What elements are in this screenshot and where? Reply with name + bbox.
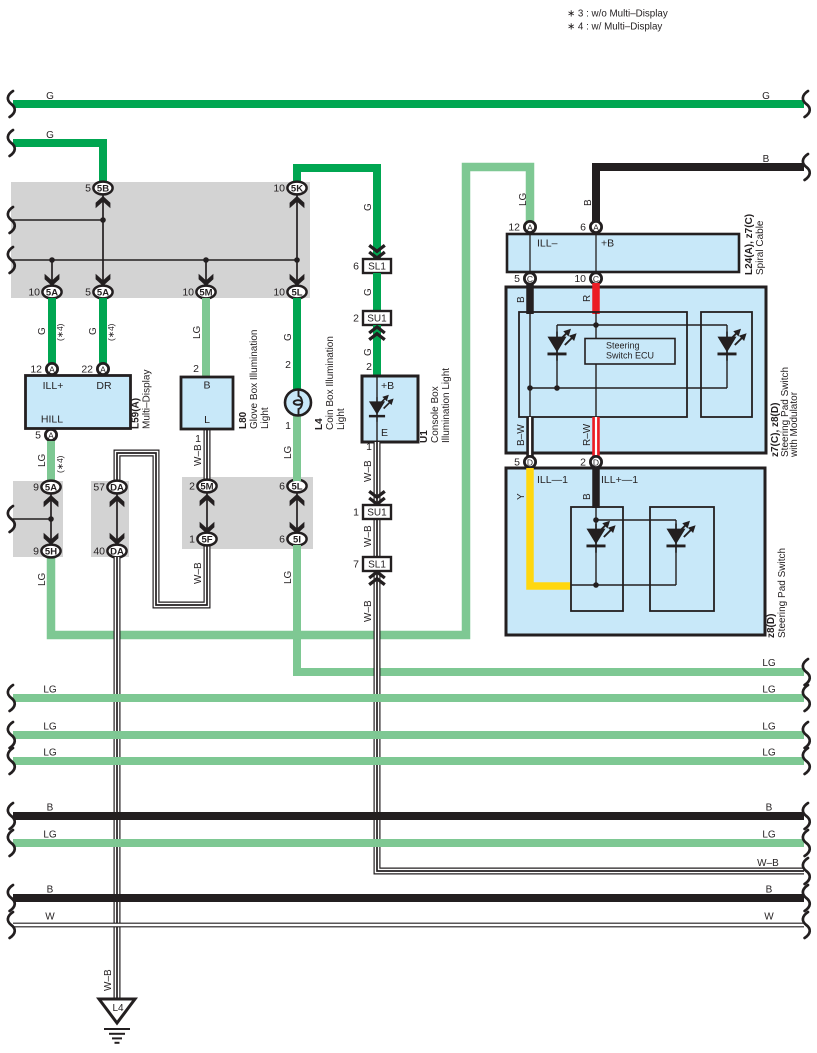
svg-text:C: C: [527, 274, 533, 284]
node dot at 5A/5H tap: [48, 516, 54, 522]
svg-text:L4: L4: [112, 1003, 124, 1014]
svg-text:1: 1: [353, 507, 359, 519]
wire G bus top: [13, 100, 804, 108]
wire LG bus 2: [13, 694, 804, 702]
glove box illumination light L80 box: [181, 377, 233, 429]
svg-text:40: 40: [93, 546, 105, 558]
wire internal spiral cable left: [529, 234, 531, 272]
wire G SL1 to SU1: [373, 273, 381, 311]
LED2 of z7: [717, 329, 746, 361]
svg-text:ILL–: ILL–: [537, 238, 558, 250]
svg-text:LG: LG: [518, 192, 529, 206]
wire thin line2 in J/B: [13, 259, 297, 261]
svg-text:1: 1: [195, 433, 201, 445]
wire W-B DA40 to ground: [114, 557, 121, 998]
svg-text:Steering Pad Switch: Steering Pad Switch: [777, 548, 788, 638]
wire internal B thin: [529, 313, 531, 417]
svg-text:G: G: [762, 91, 770, 102]
svg-text:LG: LG: [283, 445, 294, 459]
junction block shading around 5M/5F/5L/5I: [182, 477, 313, 549]
svg-text:Console Box: Console Box: [430, 386, 441, 443]
svg-text:G: G: [88, 327, 99, 335]
svg-text:5: 5: [85, 287, 91, 299]
svg-text:A: A: [100, 364, 106, 374]
svg-text:B: B: [763, 154, 770, 165]
wire G 5L to coin box light: [293, 298, 301, 392]
svg-text:A: A: [527, 222, 533, 232]
wire break right G bus: [803, 91, 810, 117]
svg-text:Multi–Display: Multi–Display: [142, 370, 153, 429]
wire break line1: [8, 207, 15, 233]
junction block shading J/B 1: [11, 182, 310, 298]
svg-text:2: 2: [193, 363, 199, 375]
svg-text:LG: LG: [762, 830, 776, 841]
junction SU1 pin1: [353, 505, 391, 519]
svg-text:2: 2: [580, 457, 586, 469]
svg-text:R–W: R–W: [582, 423, 593, 446]
svg-text:W–B: W–B: [363, 525, 374, 547]
svg-text:W: W: [764, 912, 774, 923]
svg-text:7: 7: [353, 559, 359, 571]
svg-text:HILL: HILL: [41, 414, 63, 426]
svg-text:L24(A), z7(C): L24(A), z7(C): [744, 214, 755, 275]
wire bottom rail z8: [571, 584, 676, 586]
svg-text:SU1: SU1: [367, 314, 387, 325]
arrow into lower 5A: [96, 274, 111, 286]
svg-text:1: 1: [285, 420, 291, 432]
svg-text:10: 10: [273, 287, 285, 299]
wire LG 5I to LG bus: [297, 545, 804, 672]
svg-text:L4: L4: [314, 418, 325, 430]
steering switch ECU box: [585, 339, 675, 365]
LED3 vertical: [675, 520, 677, 585]
svg-text:C: C: [593, 274, 599, 284]
wire DA to DA vertical: [116, 493, 118, 546]
svg-text:SL1: SL1: [368, 560, 386, 571]
svg-text:E: E: [381, 427, 388, 439]
svg-text:12: 12: [508, 222, 520, 234]
svg-text:LG: LG: [192, 325, 203, 339]
connector 5I pin6: [279, 533, 306, 546]
svg-text:SU1: SU1: [367, 508, 387, 519]
svg-text:LG: LG: [762, 722, 776, 733]
steering pad switch z8(D) box: [506, 468, 765, 635]
connector DA pin57: [93, 481, 126, 494]
svg-text:2: 2: [189, 481, 195, 493]
wire break left G2: [8, 130, 15, 156]
svg-text:5A: 5A: [45, 482, 57, 493]
LED2 vertical: [726, 325, 728, 388]
connector 5L pin6: [279, 480, 306, 493]
svg-text:5F: 5F: [201, 534, 212, 545]
inner switch box z8 left: [571, 507, 623, 611]
pin 5 D between z7 and z8: [514, 456, 535, 468]
svg-text:W–B: W–B: [103, 969, 114, 991]
wire LG coin box to 5L: [293, 413, 301, 481]
node dot R top rail: [593, 322, 599, 328]
svg-text:10: 10: [273, 183, 285, 195]
connector 5H pin9: [33, 545, 60, 558]
svg-text:A: A: [593, 222, 599, 232]
svg-text:W–B: W–B: [193, 444, 204, 466]
node dot B bottom rail: [527, 385, 533, 391]
svg-text:B: B: [47, 803, 54, 814]
svg-text:R: R: [582, 295, 593, 302]
svg-text:SL1: SL1: [368, 262, 386, 273]
wire W-B 5F loop to DA57: [117, 453, 207, 605]
wire internal spiral cable right: [595, 234, 597, 272]
svg-text:B: B: [766, 885, 773, 896]
svg-text:B: B: [582, 493, 593, 500]
svg-text:6: 6: [279, 481, 285, 493]
svg-text:G: G: [46, 130, 54, 141]
svg-text:5M: 5M: [200, 481, 213, 492]
svg-text:5I: 5I: [293, 534, 301, 545]
node dot z8 bottom: [593, 582, 599, 588]
svg-text:LG: LG: [43, 685, 57, 696]
svg-text:LG: LG: [43, 722, 57, 733]
wire break tap: [8, 506, 15, 532]
svg-text:ILL+—1: ILL+—1: [601, 474, 638, 486]
coin box illumination light L4 bulb: [285, 390, 311, 416]
LED of U1: [369, 395, 394, 422]
wire break right LG bus1: [803, 659, 810, 685]
junction SL1 pin7: [353, 557, 391, 571]
svg-text:U1: U1: [419, 430, 430, 443]
svg-text:2: 2: [366, 361, 372, 373]
svg-text:LG: LG: [762, 658, 776, 669]
connector 5L pin10: [273, 286, 306, 299]
svg-text:Spiral Cable: Spiral Cable: [755, 220, 766, 275]
svg-text:5M: 5M: [199, 287, 212, 298]
svg-text:+B: +B: [381, 380, 394, 392]
wire LG bus 5: [13, 839, 804, 847]
node dot line2 x206: [203, 257, 209, 263]
arrow into 5K: [290, 196, 305, 208]
arrow into 5F: [200, 522, 215, 534]
wire 5M to 5F vertical: [206, 492, 208, 534]
wire bottom rail z7: [530, 387, 727, 389]
svg-text:10: 10: [182, 287, 194, 299]
svg-text:22: 22: [81, 364, 93, 376]
svg-text:5L: 5L: [291, 481, 302, 492]
svg-text:9: 9: [33, 546, 39, 558]
svg-text:B: B: [766, 803, 773, 814]
svg-text:DA: DA: [110, 546, 124, 557]
svg-text:A: A: [49, 364, 55, 374]
svg-text:L59(A): L59(A): [131, 398, 142, 429]
svg-text:9: 9: [33, 482, 39, 494]
svg-text:5A: 5A: [46, 287, 58, 298]
wire W-B L80 to 5M: [204, 429, 211, 481]
node dot LED1 bottom rail: [554, 385, 560, 391]
svg-text:57: 57: [93, 482, 105, 494]
svg-text:B: B: [516, 296, 527, 303]
svg-text:5B: 5B: [97, 183, 109, 194]
junction block shading around DA/DA: [91, 481, 129, 557]
wire B bus 2: [13, 894, 804, 902]
pin 5 C of spiral cable: [514, 273, 535, 285]
pin 2 D between z7 and z8: [580, 456, 601, 468]
svg-text:G: G: [37, 327, 48, 335]
arrow into 5M: [200, 494, 215, 506]
wire break right W-B bus: [803, 858, 810, 884]
wire top rail z8: [596, 519, 676, 521]
svg-text:B–W: B–W: [516, 424, 527, 446]
svg-text:G: G: [363, 348, 374, 356]
svg-text:D: D: [593, 457, 599, 467]
connector 5B: [85, 182, 112, 195]
svg-text:LG: LG: [762, 748, 776, 759]
svg-text:(∗4): (∗4): [55, 323, 65, 341]
svg-text:Switch ECU: Switch ECU: [606, 351, 654, 361]
pin 5 A of L59: [35, 429, 56, 441]
wire internal U1: [376, 376, 378, 442]
svg-text:5: 5: [85, 183, 91, 195]
svg-text:1: 1: [366, 441, 372, 453]
svg-text:D: D: [527, 457, 533, 467]
svg-text:DA: DA: [110, 482, 124, 493]
wire B from right to spiral cable 6A: [596, 167, 804, 224]
wire B bus 1: [13, 812, 804, 820]
svg-text:LG: LG: [43, 748, 57, 759]
wire W-B U1 to bottom bus: [377, 442, 804, 871]
inner switch box z8 right: [650, 507, 714, 611]
spiral cable L24(A) z7(C) box: [507, 234, 739, 272]
wire 5L to 5I vertical: [296, 492, 298, 534]
junction SL1 pin6: [353, 259, 391, 273]
svg-text:G: G: [363, 288, 374, 296]
svg-text:LG: LG: [37, 453, 48, 467]
svg-text:z8(D): z8(D): [766, 614, 777, 638]
svg-text:B: B: [203, 380, 210, 392]
wire break left G bus: [8, 91, 15, 117]
svg-text:Light: Light: [260, 407, 271, 429]
inner switch box z7 right: [701, 312, 752, 417]
arrow into DA40: [110, 533, 125, 545]
wire branch to 5A-10: [51, 260, 53, 287]
svg-text:G: G: [363, 203, 374, 211]
svg-text:DR: DR: [96, 380, 112, 392]
wire branch to 5M: [205, 260, 207, 287]
pin 12 A of L59: [30, 363, 57, 375]
arrow into DA57: [110, 495, 125, 507]
inner switch box z7 left: [519, 312, 687, 417]
wire LG L59 pin5 to 5A-9: [47, 441, 55, 483]
wire LG 5M to L80: [202, 298, 210, 377]
svg-text:LG: LG: [283, 570, 294, 584]
svg-text:G: G: [46, 91, 54, 102]
arrow into 5B: [96, 196, 111, 208]
splice arrows into SL1: [369, 245, 385, 258]
svg-text:∗ 4 : w/ Multi–Display: ∗ 4 : w/ Multi–Display: [567, 22, 662, 33]
wire G 5A to L59 pin22: [99, 298, 107, 363]
wire W bus: [13, 923, 804, 928]
splice arrows into SU1 lower: [369, 491, 385, 504]
LED3 of z8: [586, 521, 615, 553]
wire 5K to 5L vertical: [296, 193, 298, 287]
svg-text:W–B: W–B: [363, 600, 374, 622]
wire 5B to 5A vertical: [102, 193, 104, 287]
svg-text:+B: +B: [601, 238, 614, 250]
wire LG 5H to spiral cable 12A: [51, 167, 530, 635]
svg-text:W–B: W–B: [757, 858, 779, 869]
svg-text:(∗4): (∗4): [106, 323, 116, 341]
svg-text:G: G: [283, 333, 294, 341]
svg-text:5: 5: [35, 430, 41, 442]
connector DA pin40: [93, 545, 126, 558]
wire break line2: [8, 247, 15, 273]
arrow into 5I: [290, 522, 305, 534]
svg-text:10: 10: [574, 273, 586, 285]
arrow into 5L: [290, 274, 305, 286]
svg-text:10: 10: [28, 287, 40, 299]
wire G 5K to console path: [297, 168, 377, 259]
svg-text:Light: Light: [336, 408, 347, 430]
svg-text:with Modulator: with Modulator: [789, 391, 800, 458]
svg-text:12: 12: [30, 364, 42, 376]
svg-text:2: 2: [285, 359, 291, 371]
svg-text:ILL+: ILL+: [43, 380, 64, 392]
svg-text:Glove Box Illumination: Glove Box Illumination: [249, 330, 260, 430]
connector 5K: [273, 182, 306, 195]
svg-text:5H: 5H: [45, 546, 57, 557]
node dot z8 top: [593, 517, 599, 523]
svg-text:B: B: [47, 885, 54, 896]
svg-text:W–B: W–B: [193, 562, 204, 584]
connector 5M pin10: [182, 286, 215, 299]
pin 12 A of spiral cable: [508, 221, 535, 233]
svg-text:5K: 5K: [291, 183, 303, 194]
svg-text:5: 5: [514, 457, 520, 469]
wire G to 5B: [13, 143, 103, 186]
wire LG bus 3: [13, 731, 804, 739]
svg-text:B: B: [583, 199, 594, 206]
svg-text:5L: 5L: [291, 287, 302, 298]
wire R 10C into z7: [592, 283, 600, 314]
svg-text:Y: Y: [516, 493, 527, 500]
connector 5A pin10: [28, 286, 61, 299]
pin 6 A of spiral cable: [580, 221, 601, 233]
wire thin line1 in J/B: [13, 219, 103, 221]
node dot line2 x52: [49, 257, 55, 263]
arrow into 5H: [44, 533, 59, 545]
arrow into 5A-9: [44, 495, 59, 507]
svg-text:∗ 3 : w/o Multi–Display: ∗ 3 : w/o Multi–Display: [567, 9, 668, 20]
ground L4: [99, 999, 135, 1043]
arrow into 5A-10: [45, 274, 60, 286]
LED1 vertical: [556, 325, 558, 388]
wire Y 5D into z8: [530, 468, 571, 586]
svg-text:6: 6: [580, 222, 586, 234]
svg-text:W: W: [45, 912, 55, 923]
svg-text:Coin Box Illumination: Coin Box Illumination: [325, 336, 336, 430]
wire thin tap line: [13, 518, 51, 520]
svg-text:(∗4): (∗4): [55, 455, 65, 473]
junction block shading around 5A/5H: [13, 481, 63, 557]
svg-text:6: 6: [353, 261, 359, 273]
wire 5A to 5H vertical: [50, 493, 52, 546]
wire internal z8 left vertical: [595, 507, 597, 585]
svg-text:L80: L80: [238, 411, 249, 429]
svg-text:6: 6: [279, 534, 285, 546]
wire B-W z7 to 5D: [526, 417, 534, 457]
splice arrows out of SU1: [369, 327, 385, 340]
pin 10 C of spiral cable: [574, 273, 601, 285]
svg-text:5: 5: [514, 273, 520, 285]
wire G SU1 to U1: [373, 325, 381, 377]
connector 5F pin1: [189, 533, 216, 546]
node dot line2 x297: [294, 257, 300, 263]
arrow into 5L-6: [290, 494, 305, 506]
wire break right B: [803, 154, 810, 180]
connector 5M pin2: [189, 480, 216, 493]
svg-text:LG: LG: [43, 830, 57, 841]
svg-text:Illumination Light: Illumination Light: [441, 368, 452, 443]
wire R-W z7 to 2D: [592, 417, 600, 457]
pin 22 A of L59: [81, 363, 108, 375]
splice arrows out of SL1 lower: [369, 572, 385, 585]
svg-text:L: L: [204, 414, 210, 426]
svg-text:LG: LG: [37, 572, 48, 586]
steering pad switch with modulator z7(C) z8(D) box: [506, 287, 766, 453]
svg-text:2: 2: [353, 313, 359, 325]
arrow into 5M-10: [199, 274, 214, 286]
svg-text:W–B: W–B: [363, 460, 374, 482]
svg-text:LG: LG: [762, 685, 776, 696]
multi-display L59(A) box: [26, 376, 131, 429]
connector 5A pin5: [85, 286, 112, 299]
svg-text:A: A: [48, 430, 54, 440]
wire LG bus 4: [13, 757, 804, 765]
wire internal R thin: [595, 313, 597, 417]
wire G 5A to L59 pin12: [48, 298, 56, 363]
wire B 5C into z7: [526, 283, 534, 314]
wire B 2D into z8: [592, 468, 600, 508]
svg-text:Steering: Steering: [606, 341, 640, 351]
LED4 of z8: [666, 521, 695, 553]
svg-text:5A: 5A: [97, 287, 109, 298]
connector 5A pin9: [33, 481, 60, 494]
LED1 of z7: [547, 329, 576, 361]
junction SU1 pin2: [353, 311, 391, 325]
svg-text:1: 1: [189, 534, 195, 546]
console box illumination light U1 box: [362, 376, 418, 442]
svg-text:ILL—1: ILL—1: [537, 474, 568, 486]
wire top rail z7: [557, 324, 727, 326]
node dot line1-5B: [100, 217, 106, 223]
